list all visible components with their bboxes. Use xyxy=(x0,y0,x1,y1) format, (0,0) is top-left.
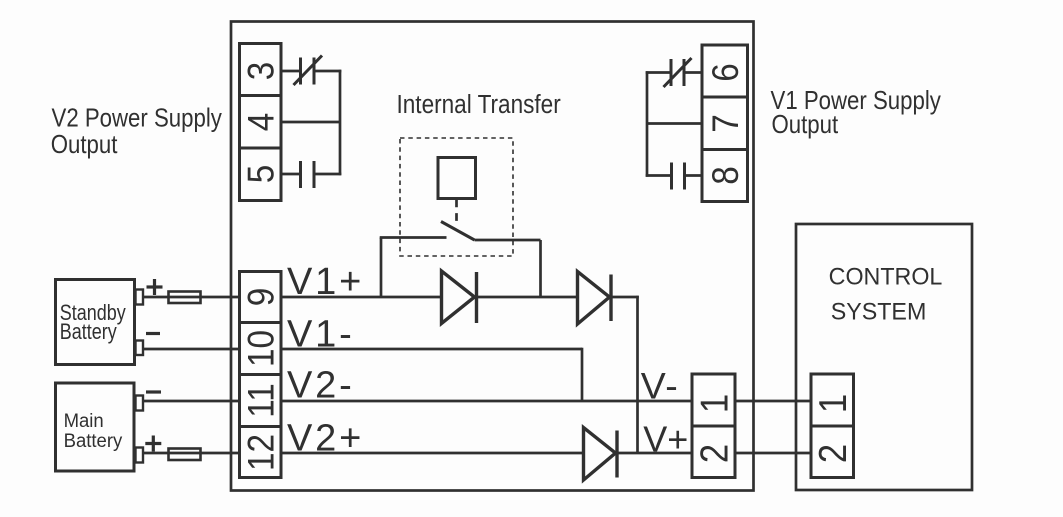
svg-text:2: 2 xyxy=(693,444,736,463)
svg-text:SYSTEM: SYSTEM xyxy=(831,298,927,326)
svg-text:V+: V+ xyxy=(643,418,688,459)
svg-text:V2-: V2- xyxy=(287,364,355,406)
svg-text:1: 1 xyxy=(693,394,736,413)
svg-text:7: 7 xyxy=(705,114,746,133)
svg-text:12: 12 xyxy=(241,434,282,471)
svg-text:Output: Output xyxy=(772,110,839,139)
svg-text:V2 Power Supply: V2 Power Supply xyxy=(52,104,223,133)
svg-text:10: 10 xyxy=(241,330,282,367)
svg-text:2: 2 xyxy=(811,444,854,463)
svg-text:6: 6 xyxy=(705,63,746,82)
svg-text:11: 11 xyxy=(241,383,282,418)
svg-text:Internal Transfer: Internal Transfer xyxy=(397,91,561,120)
svg-text:V2+: V2+ xyxy=(287,418,364,460)
svg-text:Output: Output xyxy=(51,130,118,159)
svg-text:8: 8 xyxy=(705,166,746,185)
svg-text:1: 1 xyxy=(811,394,854,413)
svg-text:4: 4 xyxy=(241,113,282,132)
svg-text:Battery: Battery xyxy=(64,431,123,453)
svg-text:9: 9 xyxy=(241,288,282,307)
svg-text:5: 5 xyxy=(241,165,282,184)
svg-text:3: 3 xyxy=(241,62,282,81)
svg-text:V1-: V1- xyxy=(287,313,355,355)
svg-text:V1+: V1+ xyxy=(287,261,364,303)
svg-text:Battery: Battery xyxy=(60,320,118,344)
svg-text:CONTROL: CONTROL xyxy=(829,263,943,291)
svg-text:Main: Main xyxy=(64,411,104,433)
svg-text:V-: V- xyxy=(641,365,679,407)
